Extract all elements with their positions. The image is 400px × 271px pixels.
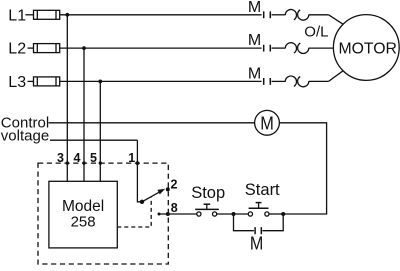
- svg-text:L2: L2: [8, 41, 26, 58]
- svg-text:5: 5: [90, 151, 97, 165]
- svg-text:MOTOR: MOTOR: [338, 41, 397, 58]
- svg-text:M: M: [248, 0, 261, 16]
- svg-text:M: M: [260, 113, 274, 134]
- svg-text:2: 2: [171, 177, 178, 191]
- svg-text:M: M: [250, 234, 263, 254]
- svg-text:3: 3: [57, 151, 64, 165]
- svg-text:L1: L1: [8, 7, 26, 24]
- svg-text:1: 1: [128, 151, 135, 165]
- svg-text:258: 258: [71, 214, 96, 231]
- svg-text:Start: Start: [245, 181, 280, 199]
- svg-text:M: M: [248, 66, 261, 83]
- svg-text:voltage: voltage: [1, 127, 49, 144]
- svg-text:Stop: Stop: [191, 184, 225, 202]
- svg-text:L3: L3: [8, 74, 26, 91]
- svg-text:M: M: [248, 32, 261, 49]
- svg-text:8: 8: [171, 201, 178, 215]
- svg-text:4: 4: [74, 151, 81, 165]
- svg-text:Model: Model: [62, 198, 104, 215]
- svg-text:O/L: O/L: [304, 24, 328, 41]
